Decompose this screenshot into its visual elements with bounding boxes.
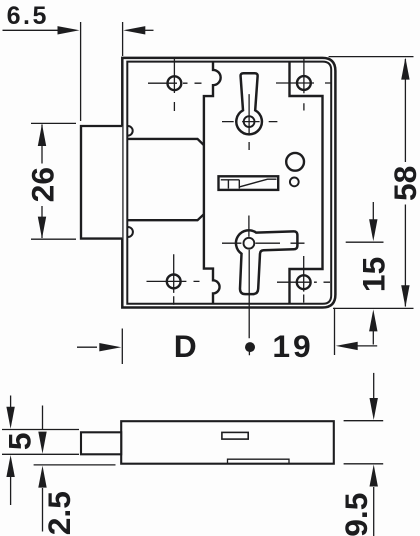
svg-text:2.5: 2.5 [41, 491, 77, 535]
svg-text:5: 5 [1, 432, 37, 450]
svg-text:6.5: 6.5 [7, 2, 49, 30]
svg-text:D: D [174, 328, 197, 364]
svg-text:58: 58 [387, 166, 420, 201]
svg-text:9.5: 9.5 [338, 493, 374, 536]
svg-text:15: 15 [356, 257, 392, 292]
svg-text:19: 19 [272, 328, 313, 364]
svg-text:26: 26 [24, 167, 60, 202]
